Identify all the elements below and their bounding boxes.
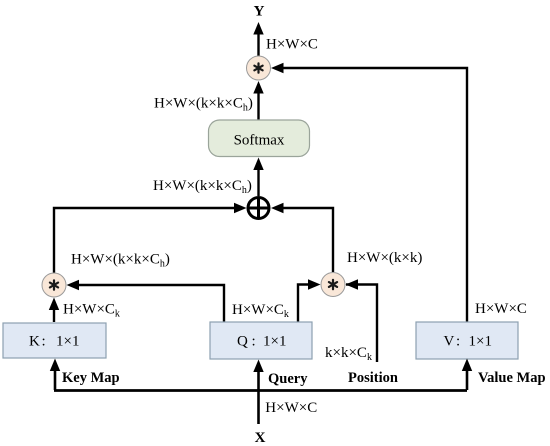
svg-text:V: V [444,334,455,350]
svg-text:H×W×C: H×W×C [265,400,317,416]
svg-text:1×1: 1×1 [469,334,492,350]
wire from right multiply U3 to adder [271,203,333,272]
multiply op U2 (left asterisk circle) [42,273,66,297]
svg-text:Softmax: Softmax [234,133,285,149]
svg-text:K: K [29,334,40,350]
svg-text:1×1: 1×1 [263,334,286,350]
wire from Position up to right multiply U3 [346,279,378,362]
wire arrow from adder to softmax [253,158,263,197]
svg-text:Q: Q [237,334,248,350]
svg-text:H×W×C: H×W×C [475,301,527,317]
svg-text:1×1: 1×1 [56,334,79,350]
Q box [210,322,312,359]
multiply op U1 (top asterisk circle) [247,56,271,80]
wire from Q box top to left multiply U2 [67,280,225,322]
wire arrow bus into V box [462,359,472,391]
wire arrow softmax to multiply U1 [253,81,263,120]
svg-text:Y: Y [254,4,265,20]
wire arrow bus into K box [50,359,60,391]
K box [3,323,106,358]
wire arrow from K box up to left multiply U2 [49,298,59,323]
wire from left multiply U2 to adder [54,203,247,273]
wire from Q box top to right multiply U3 [298,279,321,322]
wire from V box top right to multiply U1 [271,63,467,322]
svg-text:H×W×(k×k×Ch): H×W×(k×k×Ch) [71,252,170,270]
svg-text:H×W×(k×k×Ch): H×W×(k×k×Ch) [154,96,253,114]
svg-text:Key Map: Key Map [62,370,120,386]
svg-text:H×W×Ck: H×W×Ck [63,302,120,320]
V box [416,322,518,359]
svg-text:H×W×Ck: H×W×Ck [232,302,289,320]
svg-text:H×W×(k×k): H×W×(k×k) [347,250,422,266]
svg-text:X: X [255,430,266,446]
wire arrow from multiply U1 up to Y [253,22,263,56]
multiply op U3 (right asterisk circle) [321,273,345,297]
svg-text:k×k×Ck: k×k×Ck [325,345,372,363]
svg-text:Value Map: Value Map [478,370,546,386]
adder node (circled plus) [248,198,269,219]
svg-text:H×W×C: H×W×C [266,37,318,53]
svg-text::: : [252,334,256,350]
softmax box [209,120,310,157]
svg-text:H×W×(k×k×Ch): H×W×(k×k×Ch) [153,178,252,196]
svg-text::: : [42,334,46,350]
wire X input up through bus into Q box [253,360,263,425]
svg-text:Query: Query [268,371,308,387]
svg-text:Position: Position [348,370,398,386]
bottom bus wire [54,389,467,392]
svg-text::: : [456,334,460,350]
